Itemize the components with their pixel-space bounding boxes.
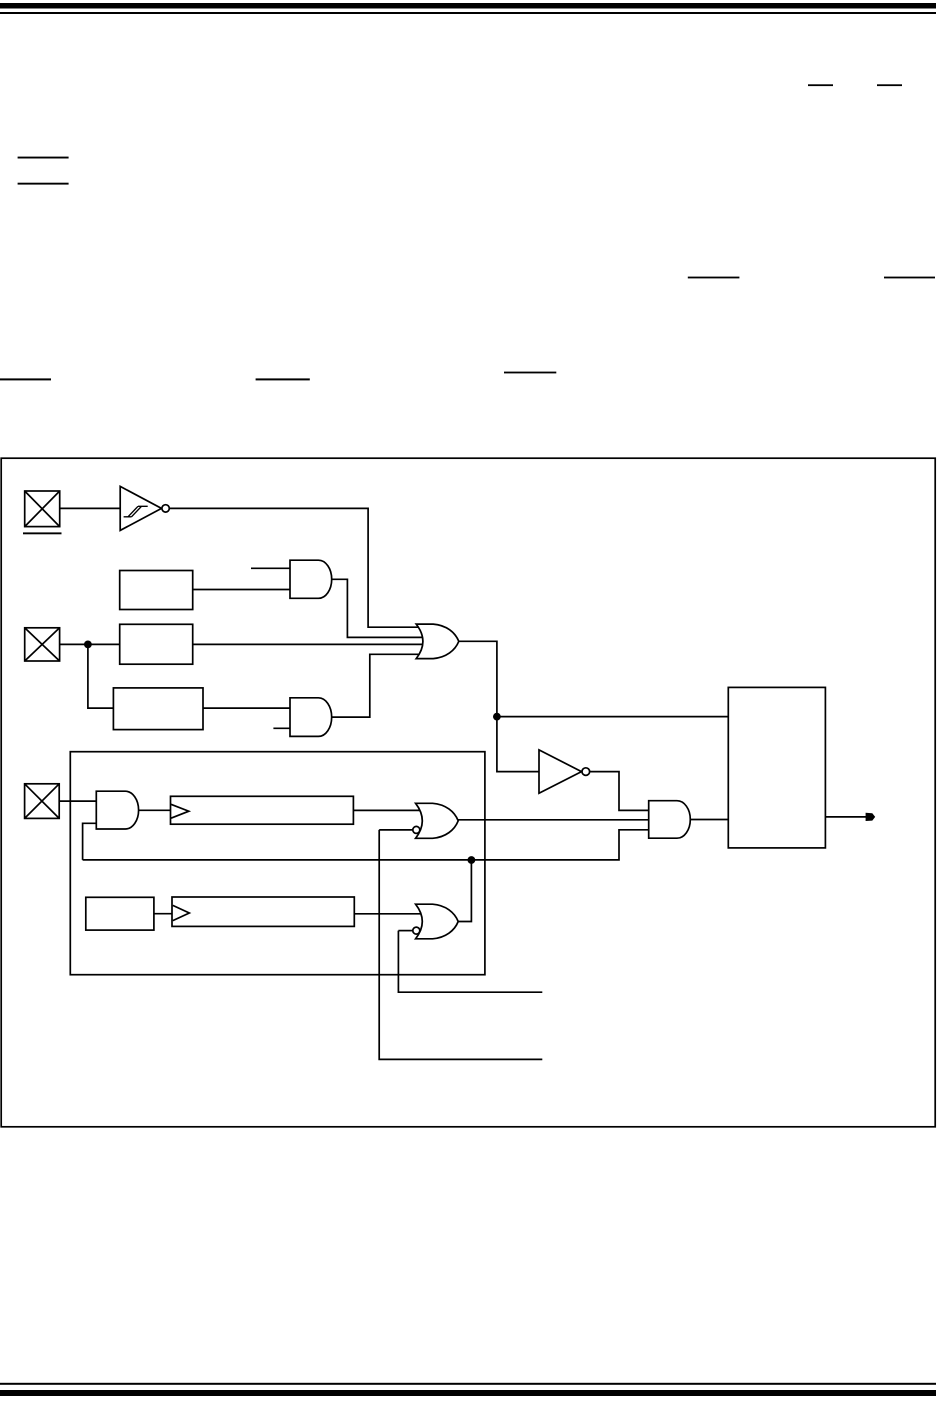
wire pin P1 to schmitt U1 [60, 507, 121, 509]
register R2 box [172, 897, 354, 926]
wire OR G6 bubble input [379, 829, 413, 831]
overline (hidden text) lower row b [256, 378, 310, 380]
box B4 [86, 897, 154, 930]
overline (hidden text) left row 2 [18, 183, 69, 185]
wire pin P3 to AND G4 [59, 800, 97, 802]
clock triangle of R1 [171, 804, 189, 818]
wire box B2 to OR G1 input3 [193, 643, 424, 645]
wire AND G4 output to register R1 [139, 809, 171, 811]
clock triangle of R2 [173, 905, 190, 920]
wire node N1 down to inverter U2 [497, 717, 540, 772]
AND gate G5 (3-input) [649, 801, 691, 839]
overline (hidden text) mid row b [884, 277, 935, 279]
AND gate G3 [290, 698, 332, 737]
wire tail from OR G6 bubble line down-right [379, 830, 542, 1060]
wire register R2 to OR G7 input1 [354, 913, 424, 915]
junction node N2 [468, 856, 476, 864]
wire AND G5 output to block B6 [689, 819, 729, 821]
OR gate G7 [416, 904, 459, 939]
junction node of P2 wire [84, 641, 92, 649]
wire box B3 to AND G3 [203, 707, 293, 709]
overline (hidden text) left row 1 [18, 157, 69, 159]
wire stub AND G3 input2 [273, 727, 292, 729]
schmitt inverter U1 [120, 486, 161, 530]
figure frame [1, 458, 935, 1127]
wire OR G7 bubble input [398, 930, 413, 932]
wire U2 output to AND G5 input1 [589, 772, 650, 811]
pin P3 (crossed box) [25, 784, 60, 819]
wire U1 output to OR G1 input1 [169, 508, 425, 627]
wire feedback line to AND G5 elbow [83, 830, 650, 860]
wire block B6 output [825, 816, 868, 818]
AND gate G2 [290, 560, 332, 598]
overline (hidden text) lower row c [504, 372, 556, 374]
footer thin rule [0, 1383, 936, 1385]
wire OR G6 output to AND G5 input3 [458, 819, 650, 821]
hysteresis glyph of U1 [124, 506, 148, 517]
header top thick rule [0, 3, 936, 9]
pin P2 (crossed box) [25, 628, 60, 661]
wire node N2 to OR G7 output elbow [458, 860, 471, 922]
overline (hidden text) lower row a [0, 378, 51, 380]
wire node N1 to block B6 [497, 716, 729, 718]
output block B6 [728, 687, 825, 848]
wire box B4 to register R2 [154, 913, 172, 915]
junction node N1 [493, 713, 501, 721]
OR gate G1 (4-input) [416, 624, 459, 659]
overline (hidden text) mid row a [688, 277, 740, 279]
footer thick rule [0, 1390, 936, 1396]
header top thin rule [0, 12, 936, 14]
AND gate G4 [96, 791, 138, 829]
inverter U2 [539, 750, 582, 793]
wire AND G3 output to OR G1 input4 [331, 654, 425, 717]
register R1 box [171, 796, 354, 824]
wire register R1 to OR G6 input1 [353, 809, 424, 811]
wire pin P2 to box B2 [60, 643, 121, 645]
output arrowhead [866, 813, 876, 821]
wire AND G2 output to OR G1 input2 [331, 579, 425, 637]
wire OR G1 output to node N1 [458, 641, 497, 716]
bubble of U1 [162, 505, 169, 512]
overline (hidden pin label) under P1 [23, 532, 62, 534]
wire tail from OR G7 bubble line down-right [398, 931, 542, 993]
bubble of G7 [413, 927, 420, 934]
box B1 [120, 571, 193, 610]
OR gate G6 [416, 803, 459, 838]
bubble of G6 [413, 826, 420, 833]
wire junction P2 down to box B3 [88, 644, 114, 708]
overline (hidden text) header right 1 [808, 84, 833, 86]
wire box B1 to AND G2 [193, 589, 292, 591]
box B2 [120, 624, 193, 664]
inner group box [70, 752, 485, 975]
pin P1 (crossed box) [25, 491, 60, 527]
overline (hidden text) header right 2 [877, 84, 902, 86]
bubble of U2 [582, 768, 590, 776]
box B3 [113, 688, 203, 730]
wire feedback elbow to AND G4 input2 [83, 823, 97, 860]
wire stub AND G2 input1 [251, 567, 292, 569]
